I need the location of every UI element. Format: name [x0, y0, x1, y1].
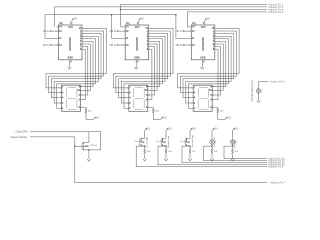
wire U1 Q0 to DS1 left pin 1 — [46, 28, 106, 88]
svg-text:Clock GPS: Clock GPS — [16, 131, 28, 134]
wire U2 Q2 to DS2 left pin 3 — [119, 34, 168, 98]
wire R2 to digit flag — [153, 114, 160, 120]
U2 left pin stub 4 — [123, 44, 125, 46]
U1 right pin stub Q8 — [82, 48, 84, 50]
DS2 segment a — [135, 86, 143, 88]
wire U1 Q4 to DS1 left pin 5 — [57, 39, 96, 109]
U2 right pin stub Q7 — [149, 46, 151, 48]
svg-text:VCC: VCC — [135, 26, 140, 29]
U3 right pin stub Q5 — [215, 40, 217, 42]
wire U3 Q6 to DS3 right pin 2 — [212, 44, 223, 90]
DS2 segment f — [133, 88, 135, 97]
DS1 segment b — [76, 88, 78, 97]
net flag MR U1 — [50, 44, 58, 46]
svg-text:5V: 5V — [235, 129, 238, 131]
ground below cell 5 — [231, 159, 235, 161]
svg-text:OE 13: OE 13 — [43, 31, 50, 33]
wire R3 to digit flag — [218, 114, 225, 120]
wire U2 Q8 to DS2 right pin 4 — [148, 49, 152, 99]
svg-text:SN74HC595: SN74HC595 — [136, 37, 139, 51]
ground below running status LED — [257, 100, 261, 102]
svg-text:5V: 5V — [215, 129, 218, 131]
resistor 10k cell 4 — [211, 146, 213, 148]
DS3 common cathode pin stub — [212, 106, 214, 108]
U1 left pin stub 4 — [57, 44, 59, 46]
svg-text:GND: GND — [68, 57, 74, 60]
ground below Q6 — [87, 159, 91, 161]
svg-text:GND: GND — [200, 57, 206, 60]
power flag 5V above U1 — [72, 18, 74, 20]
DS1 left pin stub 3 — [60, 97, 62, 99]
wire U2 Q5 to DS2 right pin 1 — [148, 41, 160, 86]
wire cell 2 to Arduino rail — [158, 146, 267, 165]
DS1 right pin stub 4 — [81, 99, 83, 101]
transistor Q1 n-mosfet — [140, 138, 142, 140]
U3 VCC top pin stub — [204, 20, 206, 25]
U1 right pin stub Q3 — [82, 35, 84, 37]
U3 right pin stub Q6 — [215, 43, 217, 45]
U3 right pin stub Q3 — [215, 35, 217, 37]
net flag D3 above driver cell 3 — [190, 128, 192, 130]
U2 right pin stub Q5 — [149, 40, 151, 42]
svg-text:MR 10: MR 10 — [110, 45, 117, 47]
net flag MR U3 — [183, 44, 191, 46]
U1 right pin stub Q7 — [82, 46, 84, 48]
U1 left pin stub 2 — [57, 30, 59, 32]
DS2 right pin stub 1 — [148, 86, 150, 88]
wire net data U1 top rail — [54, 7, 267, 27]
transistor Q3 n-mosfet — [185, 138, 187, 140]
DS2 right pin stub 3 — [148, 94, 150, 96]
ground below U2 — [134, 67, 138, 69]
net flag 5V above driver cell 4 — [212, 128, 214, 130]
junction below cell 4 — [211, 145, 213, 147]
DS3 right pin stub 2 — [212, 89, 214, 91]
wire net data U2 top rail — [120, 4, 122, 27]
U3 right pin stub Q0 — [215, 27, 217, 29]
U3 right pin stub Q4 — [215, 38, 217, 40]
U3 left pin stub 4 — [189, 44, 191, 46]
U2 right pin stub Q0 — [149, 27, 151, 29]
LED D9 running status — [256, 89, 261, 94]
junction Q6 source — [88, 149, 90, 151]
svg-text:PM LED: PM LED — [234, 139, 236, 148]
resistor R3 560 on DS3 common — [214, 106, 218, 108]
power flag 5V above U3 — [205, 18, 207, 20]
svg-text:VCC: VCC — [201, 26, 206, 29]
ground below cell 1 — [143, 159, 147, 161]
DS2 right pin stub 4 — [148, 99, 150, 101]
DS3 right pin stub 1 — [212, 86, 214, 88]
DS3 segment b — [208, 88, 210, 97]
wire U3 Q4 to DS3 left pin 5 — [188, 39, 228, 109]
wire U2 Q6 to DS2 right pin 2 — [148, 44, 157, 90]
U1 left pin stub 1 — [57, 26, 59, 28]
svg-text:VCC: VCC — [68, 26, 73, 29]
wire U1 Q7 to DS1 right pin 3 — [81, 47, 88, 95]
resistor R1 560 on DS1 common — [83, 106, 87, 108]
svg-text:Second Digit: Second Digit — [191, 135, 194, 148]
wire running status LED to Arduino — [259, 82, 269, 89]
svg-text:Pin: Pin — [156, 141, 159, 143]
DS1 left pin stub 2 — [60, 92, 62, 94]
resistor 10k cell 5 — [232, 146, 234, 148]
svg-text:Arduino Pin 5: Arduino Pin 5 — [268, 11, 284, 14]
DS2 segment d — [135, 108, 143, 110]
wire cell 5 to Arduino rail — [224, 146, 267, 159]
transistor Q2 n-mosfet — [161, 138, 163, 140]
DS2 left pin stub 5 — [127, 107, 129, 109]
junction below cell 1 — [144, 145, 146, 147]
net flag digit D1 — [93, 117, 95, 119]
DS2 left pin stub 4 — [127, 102, 129, 104]
wire U1 Q5 to DS1 right pin 1 — [81, 41, 94, 86]
wire U1 Q6 to DS1 right pin 2 — [81, 44, 91, 90]
U3 left pin stub 1 — [189, 26, 191, 28]
wire U1 Q8 to DS1 right pin 4 — [81, 49, 86, 99]
DS1 segment d — [68, 108, 76, 110]
net flag D1 above driver cell 1 — [145, 128, 147, 130]
wire U3 Q3 to DS3 left pin 4 — [186, 36, 231, 103]
wire Camera Shutter net down to bottom rail — [30, 137, 267, 183]
junction below cell 2 — [165, 145, 167, 147]
U1 right pin stub Q5 — [82, 40, 84, 42]
wire clock drop to U2 pin 11 — [112, 15, 124, 39]
U2 right pin stub Q4 — [149, 38, 151, 40]
wire U3 Q5 to DS3 right pin 1 — [212, 41, 226, 86]
DS3 segment f — [197, 88, 199, 97]
DS2 left pin stub 1 — [127, 87, 129, 89]
U1 right pin stub Q2 — [82, 33, 84, 35]
7-segment display DS3 — [193, 85, 212, 111]
wire U3 Q0 to DS3 left pin 1 — [178, 28, 239, 88]
U2 right pin stub Q3 — [149, 35, 151, 37]
shift register U1 74HC595 — [59, 25, 83, 60]
U1 right pin stub Q4 — [82, 38, 84, 40]
DS1 right pin stub 1 — [81, 86, 83, 88]
DS3 left pin stub 1 — [191, 87, 193, 89]
shift register U3 74HC595 — [191, 25, 215, 60]
DS2 common cathode pin stub — [148, 106, 150, 108]
junction data U2 — [120, 9, 122, 11]
wire U3 Q2 to DS3 left pin 3 — [183, 34, 234, 98]
DS3 left pin stub 4 — [191, 102, 193, 104]
DS1 right pin stub 2 — [81, 89, 83, 91]
DS2 segment c — [143, 99, 145, 108]
U2 left pin stub 3 — [123, 37, 125, 39]
junction clock at U3 drop — [175, 14, 177, 16]
junction clock at U2 drop — [111, 14, 113, 16]
7-segment display DS2 — [129, 85, 148, 111]
wire Clock GPS to Q6 source loop — [30, 132, 101, 150]
DS1 decimal point — [77, 108, 80, 111]
wire U2 Q0 to DS2 left pin 1 — [113, 28, 173, 88]
U3 left pin stub 2 — [189, 30, 191, 32]
DS1 left pin stub 1 — [60, 87, 62, 89]
net flag D2 above driver cell 2 — [166, 128, 168, 130]
DS3 left pin stub 5 — [191, 107, 193, 109]
svg-text:Hours Digit: Hours Digit — [146, 136, 149, 147]
wire Q6 source to ground — [88, 150, 90, 159]
junction camera shutter gate tap — [74, 146, 76, 148]
ground below cell 2 — [164, 159, 168, 161]
DS3 segment a — [199, 86, 207, 88]
junction below cell 5 — [232, 145, 234, 147]
wire flag to component cell 4 — [211, 131, 213, 139]
U2 left pin stub 1 — [123, 26, 125, 28]
net flag OE U3 — [183, 30, 191, 32]
net flag MR U2 — [117, 44, 125, 46]
svg-text:SN74HC595: SN74HC595 — [69, 37, 72, 51]
U1 right pin stub Q6 — [82, 43, 84, 45]
wire cell 4 to Arduino rail — [204, 146, 268, 161]
U2 left pin stub 2 — [123, 30, 125, 32]
wire Q6 drain up to clock gps line — [88, 132, 90, 143]
U2 right pin stub Q1 — [149, 30, 151, 32]
wire net data U3 top rail — [187, 12, 267, 27]
ground below U1 — [68, 67, 72, 69]
wire flag to component cell 5 — [232, 131, 234, 139]
DS2 segment e — [133, 99, 135, 108]
wire U3 Q1 to DS3 left pin 2 — [180, 31, 236, 93]
LED D7 — [210, 140, 215, 145]
U1 top pin 16 stub — [62, 23, 64, 25]
U3 right pin stub Q2 — [215, 33, 217, 35]
DS3 left pin stub 2 — [191, 92, 193, 94]
wire R1 to digit flag — [86, 114, 93, 120]
DS1 segment f — [66, 88, 68, 97]
U2 VCC top pin stub — [138, 20, 140, 25]
svg-text:Arduino Pin 7: Arduino Pin 7 — [270, 182, 286, 185]
transistor Q6 n-mosfet clock driver — [82, 142, 84, 144]
U3 left pin stub 3 — [189, 37, 191, 39]
net flag OE U1 — [50, 30, 58, 32]
net flag 5V above driver cell 5 — [233, 128, 235, 130]
svg-text:Camera Shutter: Camera Shutter — [10, 136, 27, 139]
svg-text:Pin: Pin — [135, 141, 138, 143]
U3 right pin stub Q7 — [215, 46, 217, 48]
wire U1 Q1 to DS1 left pin 2 — [49, 31, 104, 93]
DS3 right pin stub 4 — [212, 99, 214, 101]
U1 VCC top pin stub — [71, 20, 73, 25]
wire cell 1 to Arduino rail — [136, 146, 267, 167]
U2 right pin stub Q8 — [149, 48, 151, 50]
DS3 segment d — [199, 108, 207, 110]
svg-text:Colon LED: Colon LED — [214, 137, 216, 148]
DS2 segment b — [143, 88, 145, 97]
LED D8 — [230, 140, 235, 145]
DS3 left pin stub 3 — [191, 97, 193, 99]
resistor 10k cell 3 — [189, 146, 191, 148]
DS1 common cathode pin stub — [81, 106, 83, 108]
DS1 segment c — [76, 99, 78, 108]
svg-text:5V: 5V — [141, 19, 144, 21]
svg-text:Minute Digit: Minute Digit — [167, 136, 170, 148]
wire U2 Q7 to DS2 right pin 3 — [148, 47, 155, 95]
svg-text:OE 13: OE 13 — [176, 31, 183, 33]
U3 bottom GND pin stub — [201, 60, 203, 67]
DS1 left pin stub 5 — [60, 107, 62, 109]
svg-text:MR 10: MR 10 — [43, 45, 50, 47]
svg-text:Running Status LED: Running Status LED — [251, 80, 254, 102]
wire flag to component cell 3 — [189, 131, 191, 139]
DS3 right pin stub 3 — [212, 94, 214, 96]
U3 right pin stub Q1 — [215, 30, 217, 32]
svg-text:Arduino Pin 13: Arduino Pin 13 — [268, 158, 285, 161]
DS2 right pin stub 2 — [148, 89, 150, 91]
wire U3 Q8 to DS3 right pin 4 — [212, 49, 218, 99]
wire U2 Q1 to DS2 left pin 2 — [116, 31, 170, 93]
net flag digit D2 — [161, 117, 163, 119]
junction below cell 3 — [189, 145, 191, 147]
svg-text:Arduino Pin 6: Arduino Pin 6 — [270, 80, 286, 83]
wire data U2 into pin — [121, 26, 124, 28]
resistor 10k cell 1 — [144, 146, 146, 148]
DS1 left pin stub 4 — [60, 102, 62, 104]
wire data U3 into pin — [187, 26, 189, 28]
wire net aux top rail — [121, 3, 268, 5]
U1 left pin stub 3 — [57, 37, 59, 39]
resistor 10k cell 2 — [165, 146, 167, 148]
wire U1 Q3 to DS1 left pin 4 — [54, 36, 98, 103]
wire flag to component cell 1 — [144, 131, 146, 139]
DS1 segment e — [66, 99, 68, 108]
wire clock into U1 pin 11 — [45, 37, 57, 39]
U1 bottom GND pin stub — [69, 60, 71, 67]
svg-text:5V: 5V — [207, 19, 210, 21]
wire U1 Q2 to DS1 left pin 3 — [51, 34, 101, 98]
U2 top pin 16 stub — [128, 23, 130, 25]
wire U2 Q4 to DS2 left pin 5 — [124, 39, 162, 109]
wire flag to component cell 2 — [165, 131, 167, 139]
DS3 segment c — [208, 99, 210, 108]
U2 right pin stub Q2 — [149, 33, 151, 35]
U3 top pin 16 stub — [194, 23, 196, 25]
DS1 segment g — [68, 97, 76, 99]
wire net clock shared rail — [45, 15, 189, 39]
DS3 segment g — [199, 97, 207, 99]
wire LED to ground — [258, 93, 260, 100]
svg-text:Pin: Pin — [180, 141, 183, 143]
DS2 left pin stub 3 — [127, 97, 129, 99]
DS2 segment g — [135, 97, 143, 99]
svg-text:MR 10: MR 10 — [176, 45, 183, 47]
7-segment display DS1 — [62, 85, 81, 111]
U2 right pin stub Q6 — [149, 43, 151, 45]
wire U2 Q3 to DS2 left pin 4 — [121, 36, 165, 103]
svg-text:SN74HC595: SN74HC595 — [202, 37, 205, 51]
wire cell 3 to Arduino rail — [182, 146, 267, 163]
ground below cell 3 — [188, 159, 192, 161]
DS2 decimal point — [144, 108, 147, 111]
DS1 segment a — [68, 86, 76, 88]
wire U3 Q7 to DS3 right pin 3 — [212, 47, 220, 95]
DS3 segment e — [197, 99, 199, 108]
DS3 decimal point — [209, 108, 212, 111]
U3 right pin stub Q8 — [215, 48, 217, 50]
power flag 5V above U2 — [139, 18, 141, 20]
DS2 left pin stub 2 — [127, 92, 129, 94]
svg-text:GND: GND — [134, 57, 140, 60]
ground below cell 4 — [210, 159, 214, 161]
net flag digit D3 — [225, 117, 227, 119]
U1 right pin stub Q0 — [82, 27, 84, 29]
U1 right pin stub Q1 — [82, 30, 84, 32]
shift register U2 74HC595 — [125, 25, 149, 60]
U2 bottom GND pin stub — [135, 60, 137, 67]
svg-text:5V: 5V — [74, 19, 77, 21]
resistor R2 560 on DS2 common — [150, 106, 154, 108]
svg-text:2N7000: 2N7000 — [90, 145, 98, 147]
ground below U3 — [201, 67, 205, 69]
net flag OE U2 — [117, 30, 125, 32]
DS1 right pin stub 3 — [81, 94, 83, 96]
svg-text:OE 13: OE 13 — [110, 31, 117, 33]
